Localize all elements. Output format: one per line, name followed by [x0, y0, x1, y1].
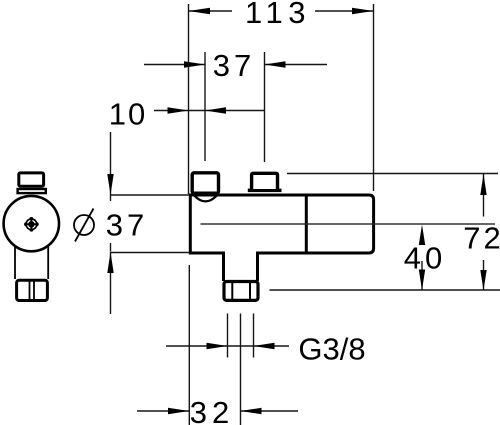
- svg-text:10: 10: [109, 97, 147, 132]
- svg-text:G3/8: G3/8: [298, 332, 365, 367]
- svg-text:72: 72: [463, 221, 500, 256]
- svg-text:37: 37: [213, 48, 255, 83]
- svg-text:40: 40: [404, 241, 446, 276]
- svg-text:113: 113: [245, 0, 311, 30]
- svg-text:37: 37: [106, 208, 148, 243]
- svg-text:32: 32: [190, 395, 234, 425]
